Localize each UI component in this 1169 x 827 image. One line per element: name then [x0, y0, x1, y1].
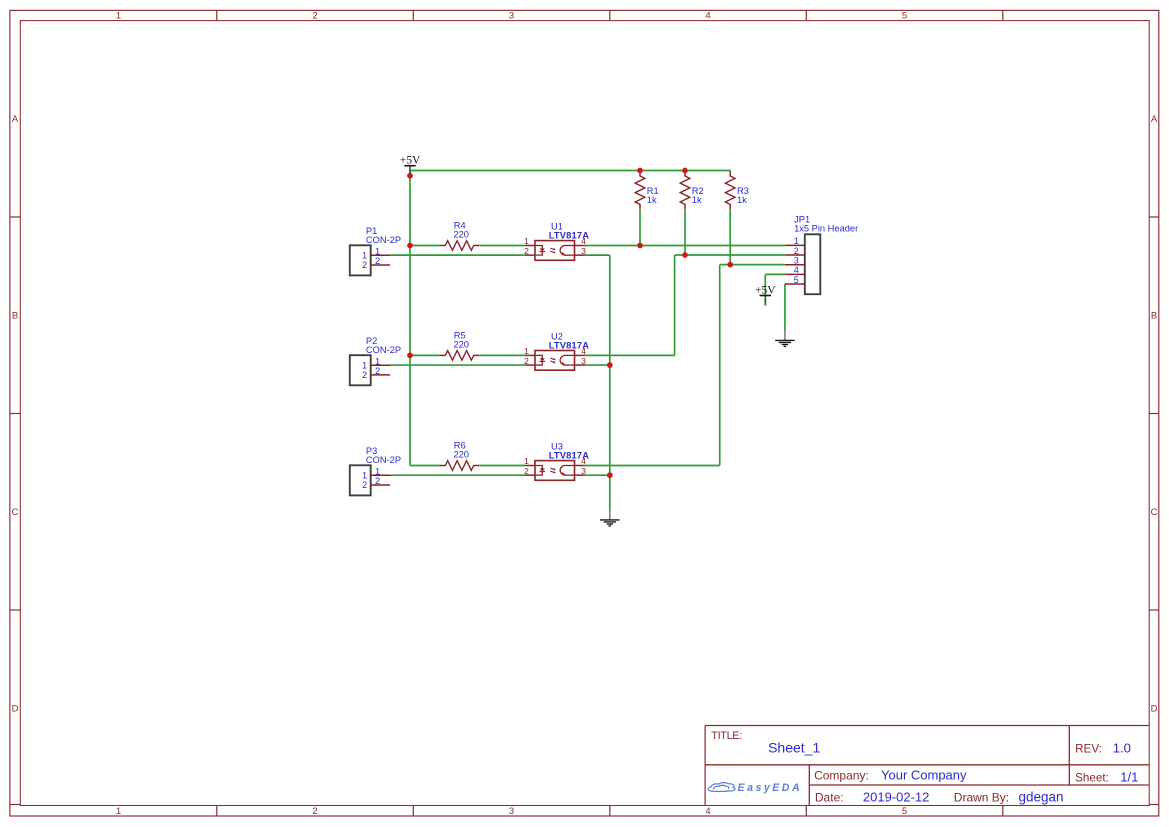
- svg-text:Sheet:: Sheet:: [1075, 772, 1109, 785]
- svg-text:220: 220: [453, 449, 469, 459]
- svg-text:1k: 1k: [692, 195, 702, 205]
- node U3.3 ground bus junction: [607, 472, 613, 478]
- svg-text:2: 2: [524, 246, 529, 256]
- svg-text:CON-2P: CON-2P: [366, 345, 401, 355]
- svg-text:1: 1: [362, 360, 367, 370]
- +5V net flag (JP1 pin4): [755, 285, 776, 306]
- svg-text:2: 2: [524, 356, 529, 366]
- svg-text:3: 3: [581, 246, 586, 256]
- svg-text:gdegan: gdegan: [1019, 789, 1064, 804]
- wire U2 pin4 to JP1 pin2: [585, 255, 785, 355]
- svg-text:C: C: [12, 507, 19, 518]
- svg-text:1: 1: [116, 806, 121, 817]
- svg-text:Your Company: Your Company: [881, 767, 967, 782]
- svg-text:1: 1: [375, 356, 380, 366]
- svg-text:5: 5: [902, 10, 907, 21]
- svg-text:2: 2: [362, 370, 367, 380]
- wire R3 bottom: [729, 210, 731, 265]
- svg-text:1x5 Pin Header: 1x5 Pin Header: [794, 224, 858, 234]
- junction node at +5V flag: [407, 173, 413, 179]
- svg-text:LTV817A: LTV817A: [549, 451, 590, 461]
- svg-text:4: 4: [705, 806, 710, 817]
- node R2-JP1.2 net junction: [682, 252, 688, 258]
- svg-text:+5V: +5V: [755, 285, 776, 297]
- svg-text:2: 2: [375, 256, 380, 266]
- svg-text:2: 2: [312, 806, 317, 817]
- svg-text:1: 1: [116, 10, 121, 21]
- svg-text:A: A: [12, 114, 19, 125]
- svg-text:3: 3: [794, 256, 799, 266]
- svg-text:1/1: 1/1: [1120, 770, 1138, 785]
- wire +5V top rail: [410, 170, 730, 172]
- wire JP1 pin4 to +5V flag: [765, 274, 785, 305]
- svg-text:1k: 1k: [647, 195, 657, 205]
- resistor R6 220: [440, 441, 479, 471]
- svg-text:2: 2: [375, 366, 380, 376]
- svg-text:3: 3: [509, 10, 514, 21]
- svg-text:LTV817A: LTV817A: [549, 231, 590, 241]
- optocoupler U1 LTV817A: [524, 222, 589, 261]
- svg-text:Drawn By:: Drawn By:: [954, 791, 1009, 805]
- svg-text:EasyEDA: EasyEDA: [738, 782, 803, 794]
- svg-text:2: 2: [312, 10, 317, 21]
- resistor R4 220: [440, 221, 479, 251]
- wire U1 pin3 to ground bus: [585, 255, 610, 510]
- wire R6 row to U3 pin1: [410, 465, 525, 467]
- connector P1 CON-2P: [350, 226, 401, 275]
- svg-text:Company:: Company:: [814, 768, 869, 782]
- node rail-R1 junction: [637, 168, 643, 174]
- svg-text:CON-2P: CON-2P: [366, 235, 401, 245]
- svg-text:C: C: [1151, 507, 1158, 518]
- ground (JP1 pin5): [775, 330, 794, 346]
- title block: [705, 726, 1149, 806]
- svg-text:3: 3: [581, 356, 586, 366]
- node R3-JP1.3 net junction: [727, 262, 733, 268]
- svg-text:5: 5: [794, 275, 799, 285]
- resistor R3 1k: [725, 171, 748, 210]
- wire U3 pin3 to ground bus: [585, 474, 610, 476]
- svg-text:LTV817A: LTV817A: [549, 340, 590, 350]
- svg-text:2: 2: [375, 476, 380, 486]
- svg-text:A: A: [1151, 114, 1158, 125]
- wire P1 pin1 to U1 pin2: [390, 254, 525, 256]
- svg-text:1: 1: [524, 456, 529, 466]
- svg-text:2019-02-12: 2019-02-12: [863, 789, 930, 804]
- svg-text:D: D: [1151, 703, 1158, 714]
- svg-text:3: 3: [581, 466, 586, 476]
- wire R5 row to U2 pin1: [410, 354, 525, 356]
- svg-text:Sheet_1: Sheet_1: [768, 740, 820, 756]
- frame column ticks: [217, 10, 1003, 816]
- frame row ticks: [10, 217, 1159, 805]
- svg-text:+5V: +5V: [400, 155, 421, 167]
- wire U1 pin4 to JP1 pin1: [585, 245, 785, 247]
- node R5 branch junction: [407, 353, 413, 359]
- +5V net flag (top rail): [400, 155, 421, 176]
- svg-text:B: B: [12, 311, 18, 322]
- svg-text:1: 1: [794, 236, 799, 246]
- svg-text:2: 2: [794, 246, 799, 256]
- svg-text:REV:: REV:: [1075, 743, 1102, 756]
- resistor R5 220: [440, 331, 479, 361]
- svg-text:1: 1: [375, 246, 380, 256]
- wire R1 bottom: [639, 210, 641, 245]
- svg-text:Date:: Date:: [815, 791, 844, 805]
- optocoupler U2 LTV817A: [524, 332, 589, 371]
- svg-text:1: 1: [524, 236, 529, 246]
- wire R4 row to U1 pin1: [410, 245, 525, 247]
- connector P2 CON-2P: [350, 336, 401, 385]
- svg-text:220: 220: [453, 229, 469, 239]
- svg-text:CON-2P: CON-2P: [366, 455, 401, 465]
- svg-text:2: 2: [524, 466, 529, 476]
- node U2.3 ground bus junction: [607, 362, 613, 368]
- svg-text:D: D: [12, 703, 19, 714]
- pin header JP1 1x5: [785, 214, 858, 294]
- svg-text:1: 1: [524, 346, 529, 356]
- svg-text:1.0: 1.0: [1113, 741, 1131, 756]
- svg-text:220: 220: [453, 339, 469, 349]
- resistor R2 1k: [680, 171, 703, 210]
- resistor R1 1k: [635, 171, 658, 210]
- svg-text:TITLE:: TITLE:: [711, 730, 742, 742]
- svg-text:1k: 1k: [737, 195, 747, 205]
- svg-text:4: 4: [794, 265, 799, 275]
- svg-text:5: 5: [902, 806, 907, 817]
- wire JP1 pin5 to ground: [784, 284, 786, 330]
- svg-text:3: 3: [509, 806, 514, 817]
- node R1-U1.4 junction: [637, 243, 643, 249]
- optocoupler U3 LTV817A: [524, 442, 589, 481]
- node R4 branch junction: [407, 243, 413, 249]
- frame column labels: [116, 10, 907, 817]
- wire main +5V vertical: [409, 171, 411, 466]
- svg-text:4: 4: [705, 10, 710, 21]
- svg-text:B: B: [1151, 311, 1157, 322]
- svg-text:2: 2: [362, 480, 367, 490]
- connector P3 CON-2P: [350, 446, 401, 495]
- wire R2 bottom: [684, 210, 686, 255]
- wire P3 pin1 to U3 pin2: [390, 474, 525, 476]
- svg-text:1: 1: [375, 466, 380, 476]
- ground (opto emitters bus): [600, 510, 619, 526]
- node rail-R2 junction: [682, 168, 688, 174]
- EasyEDA logo: [708, 782, 802, 794]
- svg-text:1: 1: [362, 471, 367, 481]
- svg-text:2: 2: [362, 260, 367, 270]
- frame row labels: [12, 114, 1158, 714]
- svg-text:1: 1: [362, 251, 367, 261]
- wire U3 pin4 to JP1 pin3: [585, 265, 785, 466]
- wire U2 pin3 to ground bus: [585, 364, 610, 366]
- wire P2 pin1 to U2 pin2: [390, 364, 525, 366]
